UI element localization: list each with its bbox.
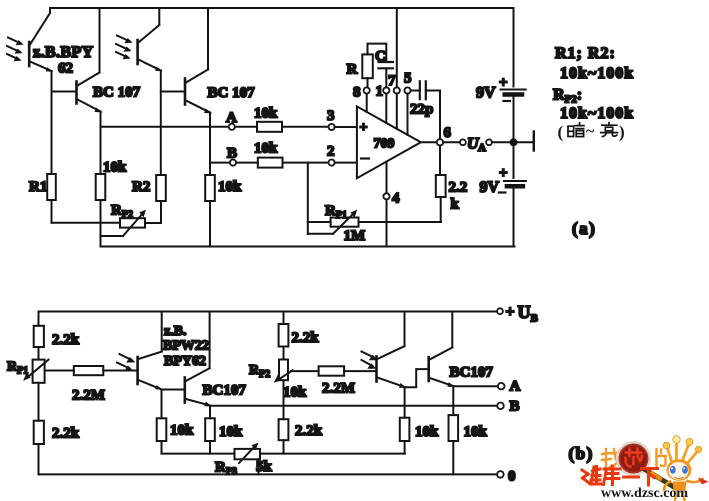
wire pin3 to op-amp — [335, 126, 357, 128]
svg-text:10k: 10k — [103, 160, 127, 176]
svg-text:10k~100k: 10k~100k — [560, 65, 634, 82]
wire Q2 emitter down — [209, 113, 211, 176]
label R2 — [132, 179, 150, 195]
svg-text:1: 1 — [376, 84, 384, 100]
wire Q1 emitter down to 10k and node — [100, 112, 102, 175]
wire PT4 emitter to Q4 base and 10k — [405, 369, 428, 418]
svg-text:): ) — [619, 123, 625, 142]
side text R1; R2: 10k~100k — [553, 45, 634, 122]
transistor Q4 BC107 — [429, 348, 455, 387]
svg-text:8: 8 — [353, 85, 361, 101]
glyph yi — [624, 476, 639, 479]
label 10k (B row) — [254, 141, 278, 157]
svg-text:RP2: RP2 — [111, 203, 133, 221]
label 2.2k (b bottom-left) — [52, 426, 80, 442]
svg-text:10k: 10k — [170, 423, 194, 439]
svg-text:7: 7 — [388, 73, 396, 89]
node B (b) — [497, 403, 504, 410]
svg-text:2.2k: 2.2k — [295, 423, 323, 439]
svg-text:(: ( — [558, 123, 564, 142]
label - (upper battery) — [504, 100, 511, 102]
svg-text:+: + — [499, 75, 508, 91]
wire pin 7 to rail — [396, 8, 398, 87]
svg-text:4: 4 — [392, 191, 400, 207]
label 4 — [392, 191, 400, 207]
wire PT3 collector to rail — [161, 312, 163, 352]
label 2.2k — [449, 180, 468, 213]
label C — [375, 49, 386, 65]
resistor R (comp) — [362, 44, 386, 88]
wire R1 bottom to common node — [52, 222, 121, 224]
node pin 2 — [329, 160, 335, 166]
svg-text:10k~100k: 10k~100k — [560, 105, 634, 122]
svg-text:10k: 10k — [415, 424, 439, 440]
label 2.2M (b left) — [72, 388, 105, 404]
svg-text:C: C — [375, 49, 386, 65]
svg-text:R1; R2:: R1; R2: — [555, 45, 616, 62]
capacitor C (comp) — [379, 62, 394, 87]
transistor Q1 BC 107 — [52, 73, 103, 113]
svg-text:10k: 10k — [254, 106, 278, 122]
battery 9V upper — [501, 90, 526, 143]
svg-text:+: + — [506, 304, 515, 321]
label - (lower battery) — [499, 191, 506, 193]
svg-text:2: 2 — [327, 144, 335, 160]
resistor 2.2M (b left) — [74, 366, 136, 375]
svg-text:2.2k: 2.2k — [292, 330, 320, 346]
wire line B (b) — [210, 405, 497, 407]
svg-text:9V: 9V — [480, 179, 500, 196]
resistor 10k (Q2 emitter) — [205, 175, 215, 247]
label B — [227, 146, 237, 162]
svg-text:10k: 10k — [283, 385, 307, 401]
svg-text:2.2M: 2.2M — [72, 388, 105, 404]
svg-text:BC107: BC107 — [450, 365, 494, 381]
label + input — [360, 121, 368, 136]
label 10k (Q1 emitter) — [103, 160, 127, 176]
light arrows PT2 — [116, 36, 133, 60]
label RP2 (b) — [249, 363, 270, 380]
svg-text:U: U — [518, 302, 531, 322]
svg-text:RP2: RP2 — [249, 363, 270, 380]
label 2.2k (b top-left) — [52, 332, 80, 348]
label 6 — [444, 125, 452, 141]
label RP1 — [325, 203, 347, 221]
wire PT1 emitter / Q1 base / R1 line — [51, 71, 53, 174]
resistor R2 — [145, 175, 166, 223]
label 0 — [508, 469, 516, 485]
svg-text:1M: 1M — [344, 228, 366, 244]
terminal bar (common) — [514, 132, 534, 151]
wire PT4 collector to rail — [404, 312, 406, 347]
svg-text:10k: 10k — [219, 424, 243, 440]
resistor R1 — [47, 174, 56, 223]
label A (b) — [510, 379, 521, 395]
node UA left — [460, 139, 466, 145]
label BC107 (Q4) — [450, 365, 494, 381]
potentiometer RP3 5k — [235, 443, 261, 475]
svg-text:2.2k: 2.2k — [52, 332, 80, 348]
light arrows PT4 — [362, 352, 379, 369]
svg-text:A: A — [510, 379, 521, 395]
resistor 2.2k (b top-right) — [279, 324, 289, 360]
label BC 107 (Q2) — [208, 85, 256, 101]
battery 9V lower — [504, 142, 526, 246]
resistor 10k (B row) — [258, 158, 283, 168]
label A — [226, 110, 237, 126]
label z.B. BPW22 BPY62 — [163, 324, 209, 369]
watermark magnifier handle — [645, 470, 673, 487]
label 10k (Q3 base leg) — [170, 423, 194, 439]
svg-text:R: R — [347, 62, 358, 78]
left column wire — [38, 312, 40, 326]
label + (upper battery) — [499, 75, 508, 91]
svg-text:10k: 10k — [464, 424, 488, 440]
resistor 10k (Q3) — [205, 418, 215, 453]
label 3 — [327, 108, 335, 124]
op-amp U1 709 — [357, 106, 421, 178]
label 2.2M (b right) — [322, 381, 355, 397]
svg-text:62: 62 — [58, 61, 73, 77]
resistor 2.2M (b right) — [319, 366, 376, 375]
svg-text:RP1: RP1 — [325, 203, 347, 221]
svg-text:k: k — [451, 197, 460, 213]
svg-text:0: 0 — [508, 469, 516, 485]
label 10k (Q4) — [464, 424, 488, 440]
wire UA to battery column — [492, 141, 514, 143]
svg-text:RP3: RP3 — [215, 460, 237, 478]
svg-text:9V: 9V — [476, 85, 496, 102]
svg-text:2.2: 2.2 — [449, 180, 468, 196]
wire pin6 to UA — [443, 141, 460, 143]
wire Q1 collector to rail — [99, 8, 101, 73]
label 10k (A row) — [254, 106, 278, 122]
wire Q4 emitter down — [452, 386, 454, 415]
node +UB — [497, 308, 503, 314]
label RP2 (a) — [111, 203, 133, 221]
resistor 10k (Q4) — [449, 415, 459, 474]
wire Q2 collector to rail — [207, 8, 209, 70]
label (b) — [569, 444, 594, 463]
label 9V (upper) — [476, 85, 496, 102]
glyph liang (bright) — [608, 123, 610, 125]
resistor 10k (Q3 base leg) — [157, 418, 167, 453]
label RP3 — [215, 460, 237, 478]
label 10k (RP2 b) — [283, 385, 307, 401]
resistor 2.2k (b top-left) — [34, 326, 44, 360]
phototransistor PT1 z.B.BPY62 — [29, 13, 53, 72]
wire top rail (b) — [39, 311, 498, 313]
node pin 7 — [394, 87, 400, 128]
label RP1 (b) — [7, 360, 28, 377]
svg-text:BC 107: BC 107 — [93, 85, 141, 101]
svg-text:A: A — [226, 110, 237, 126]
label 1M — [344, 228, 366, 244]
glyph an (dark) — [568, 126, 574, 136]
wire bottom rail 0 (b) — [39, 473, 498, 475]
glyph wei — [582, 470, 588, 474]
svg-text:+: + — [499, 166, 508, 182]
wire B to 10k — [236, 162, 258, 164]
wire PT3 emitter / Q3 base — [162, 390, 184, 419]
wire PT2 emitter / Q2 base / R2 line — [160, 71, 162, 176]
label 10k (Q3) — [219, 424, 243, 440]
resistor 10k (A row) — [257, 122, 282, 132]
label + (lower battery) — [499, 166, 508, 182]
wire Q3 collector to rail — [209, 312, 211, 369]
resistor 2.2k (output load) — [436, 146, 446, 223]
transistor Q2 BC 107 — [161, 70, 213, 114]
svg-text:2.2k: 2.2k — [52, 426, 80, 442]
svg-text:3: 3 — [327, 108, 335, 124]
wire PT2 collector to rail — [158, 8, 160, 25]
side text (dark~bright) CJK — [558, 123, 625, 142]
node pin 5 — [404, 87, 410, 134]
phototransistor PT3 BPW22/BPY62 — [138, 352, 163, 390]
label B (b) — [510, 399, 520, 415]
wire 10k to pin3 — [282, 126, 329, 128]
wire bottom rail (a) — [101, 246, 515, 248]
label 9V (lower) — [480, 179, 500, 196]
battery column wire — [513, 8, 515, 87]
svg-text:RP1: RP1 — [7, 360, 28, 377]
watermark glyph zhao (find) — [602, 449, 621, 469]
node A — [229, 124, 235, 130]
wire op-amp output — [421, 141, 437, 143]
potentiometer RP1 (b) — [23, 360, 74, 383]
svg-text:(a): (a) — [572, 219, 596, 238]
svg-text:10k: 10k — [218, 179, 242, 195]
label 709 — [374, 137, 395, 152]
label 10k (PT4 leg) — [415, 424, 439, 440]
label UA — [467, 136, 486, 155]
resistor 2.2k (b bottom-left) — [34, 421, 44, 475]
svg-text:5: 5 — [404, 71, 412, 87]
node pin 1 — [383, 87, 389, 123]
wire right column through B line — [283, 380, 285, 419]
label 22p — [410, 102, 433, 118]
label 5 — [404, 71, 412, 87]
watermark text weikuyixia (red) — [582, 466, 658, 485]
svg-text:z.B.: z.B. — [164, 324, 187, 339]
svg-text:R2: R2 — [132, 179, 150, 195]
node pin 8 — [364, 87, 370, 112]
light arrows PT1 — [7, 38, 24, 62]
capacitor 22p — [411, 81, 440, 139]
label 2.2k (b top-right) — [292, 330, 320, 346]
svg-text:709: 709 — [374, 137, 395, 152]
svg-text:BPW22: BPW22 — [163, 339, 209, 354]
watermark magnifier circle with chip glyph — [617, 442, 649, 474]
label BC107 (Q3) — [203, 383, 247, 399]
label BC 107 (Q1) — [93, 85, 141, 101]
svg-text:R1: R1 — [29, 179, 47, 195]
label R — [347, 62, 358, 78]
wire pot to 2.2k bottom-left — [38, 383, 40, 421]
wire common emitter line (b) — [162, 453, 405, 455]
resistor 10k (Q1 emitter) — [96, 174, 106, 247]
wire pin2 to op-amp — [335, 162, 357, 164]
label 8 — [353, 85, 361, 101]
glyph xia — [642, 467, 658, 470]
label z.B.BPY 62 — [33, 44, 94, 77]
potentiometer RP2 (b) 10k — [274, 360, 319, 383]
label 2.2k (b mid-right) — [295, 423, 323, 439]
svg-text:B: B — [531, 313, 539, 325]
phototransistor PT4 — [377, 346, 407, 388]
light arrows PT3 — [117, 354, 135, 371]
potentiometer RP1 1M — [308, 163, 441, 234]
resistor 10k (PT4 leg) — [400, 418, 410, 454]
svg-text:5k: 5k — [256, 459, 273, 475]
svg-text:BPY62: BPY62 — [164, 354, 206, 369]
label 5k — [256, 459, 273, 475]
svg-text:B: B — [227, 146, 237, 162]
watermark group — [582, 436, 709, 501]
wire line B — [210, 162, 230, 164]
svg-text:6: 6 — [444, 125, 452, 141]
resistor 2.2k (b mid-right) — [279, 419, 289, 453]
svg-text:22p: 22p — [410, 102, 433, 118]
svg-text:RP2:: RP2: — [553, 87, 582, 106]
svg-text:+: + — [360, 121, 368, 136]
wire A to 10k — [235, 126, 257, 128]
svg-text:A: A — [478, 142, 486, 154]
wire Q4 collector to rail — [451, 312, 453, 348]
label +UB — [506, 302, 539, 325]
node 0 — [497, 471, 504, 478]
right column wire top — [283, 312, 285, 325]
label 7 — [388, 73, 396, 89]
node pin 3 — [329, 124, 335, 130]
node A (b) — [498, 383, 505, 390]
label (a) — [572, 219, 596, 238]
phototransistor PT2 — [138, 25, 163, 71]
node pin 6 — [437, 139, 443, 145]
svg-text:www.dzsc.com: www.dzsc.com — [601, 486, 688, 501]
svg-text:(b): (b) — [569, 444, 594, 463]
wire 10k to pin2 — [283, 162, 329, 164]
potentiometer RP2 (a) — [101, 210, 161, 236]
label R1 — [29, 179, 47, 195]
node B — [230, 160, 236, 166]
node UA right — [486, 139, 492, 145]
junction dot battery mid — [510, 138, 518, 146]
transistor Q3 BC107 — [185, 368, 212, 406]
svg-text:BC107: BC107 — [203, 383, 247, 399]
wire line A (b) — [453, 385, 498, 387]
label 2 — [327, 144, 335, 160]
wire Q3 emitter down to 10k — [209, 406, 211, 419]
wire line A — [101, 126, 229, 128]
node pin 4 — [383, 162, 389, 247]
label - input — [361, 157, 369, 159]
watermark glyph pian (chip) — [657, 449, 666, 466]
wire top supply rail (a) — [50, 8, 514, 13]
watermark url text — [601, 486, 688, 501]
label 1 — [376, 84, 384, 100]
svg-text:~: ~ — [586, 123, 595, 140]
watermark mascot — [663, 436, 708, 500]
svg-text:B: B — [510, 399, 520, 415]
svg-text:z.B.BPY: z.B.BPY — [33, 44, 94, 61]
svg-text:10k: 10k — [254, 141, 278, 157]
svg-text:BC 107: BC 107 — [208, 85, 256, 101]
label 10k (Q2 emitter) — [218, 179, 242, 195]
svg-text:2.2M: 2.2M — [322, 381, 355, 397]
glyph ku — [604, 468, 620, 471]
